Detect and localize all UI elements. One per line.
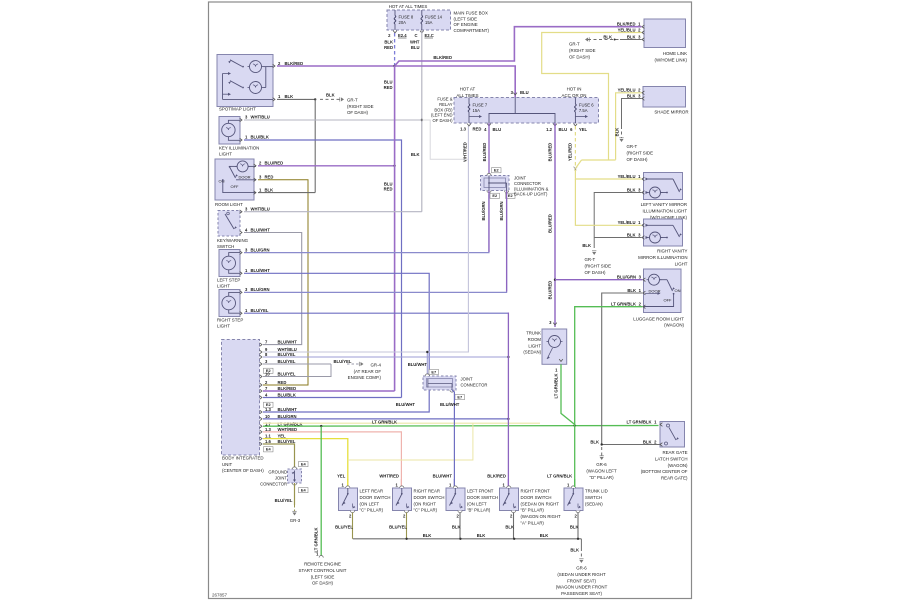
svg-text:LT GRN/BLK: LT GRN/BLK — [372, 420, 397, 425]
svg-text:(LEFT END: (LEFT END — [431, 113, 453, 118]
svg-text:BLU/YEL: BLU/YEL — [335, 525, 353, 530]
svg-text:REMOTE ENGINE: REMOTE ENGINE — [304, 562, 341, 567]
svg-text:ON: ON — [675, 288, 681, 293]
svg-text:TRUNK LID: TRUNK LID — [585, 489, 608, 494]
svg-text:BLU/WHT: BLU/WHT — [433, 474, 453, 479]
svg-text:KEY/WARNING: KEY/WARNING — [217, 238, 249, 243]
svg-text:OF DASH): OF DASH) — [627, 157, 649, 162]
svg-text:OFF: OFF — [664, 297, 673, 302]
svg-text:YEL/BLU: YEL/BLU — [618, 174, 636, 179]
svg-text:15A: 15A — [473, 108, 481, 113]
svg-text:ALL TIMES: ALL TIMES — [456, 93, 478, 98]
svg-text:ENGINE COMP.): ENGINE COMP.) — [348, 375, 382, 380]
svg-text:SHADE MIRROR: SHADE MIRROR — [654, 110, 688, 115]
svg-text:UNIT: UNIT — [222, 462, 233, 467]
svg-text:BLU/YEL: BLU/YEL — [251, 308, 269, 313]
svg-text:(WAGON UNDER FRONT: (WAGON UNDER FRONT — [556, 585, 608, 590]
svg-text:1.3: 1.3 — [460, 126, 466, 131]
svg-text:BLK: BLK — [643, 439, 652, 444]
svg-text:BLK: BLK — [423, 533, 432, 538]
svg-text:BLU/RED: BLU/RED — [548, 143, 553, 162]
svg-text:RIGHT FRONT: RIGHT FRONT — [521, 489, 551, 494]
svg-text:"D" PILLAR): "D" PILLAR) — [589, 475, 614, 480]
svg-text:LIGHT: LIGHT — [219, 152, 232, 157]
svg-text:OF ENGINE: OF ENGINE — [454, 22, 478, 27]
svg-text:OF DASH): OF DASH) — [569, 54, 591, 59]
svg-text:(SEDAN ON RIGHT: (SEDAN ON RIGHT — [521, 501, 560, 506]
svg-text:OF DASH): OF DASH) — [347, 110, 369, 115]
svg-text:ROOM LIGHT: ROOM LIGHT — [215, 202, 243, 207]
svg-text:E4: E4 — [266, 447, 272, 452]
svg-text:LEFT REAR: LEFT REAR — [360, 489, 384, 494]
svg-text:JOINT: JOINT — [461, 377, 474, 382]
svg-text:BLU: BLU — [384, 181, 393, 186]
svg-text:BLU/YEL: BLU/YEL — [278, 439, 296, 444]
svg-text:LEFT FRONT: LEFT FRONT — [467, 489, 494, 494]
svg-text:(AT REAR OF: (AT REAR OF — [354, 369, 382, 374]
svg-text:BLK: BLK — [627, 232, 636, 237]
svg-text:JOINT: JOINT — [275, 476, 288, 481]
svg-text:(ON RIGHT: (ON RIGHT — [414, 501, 437, 506]
svg-text:(SEDAN): (SEDAN) — [523, 350, 541, 355]
svg-text:LT GRN/BLK: LT GRN/BLK — [547, 474, 572, 479]
svg-text:(ON LEFT: (ON LEFT — [467, 501, 487, 506]
svg-text:BLK: BLK — [477, 533, 486, 538]
svg-text:BOX (FB): BOX (FB) — [434, 107, 453, 112]
svg-text:(LEFT SIDE: (LEFT SIDE — [311, 574, 335, 579]
svg-text:E2.4: E2.4 — [398, 33, 407, 38]
svg-text:BLK: BLK — [540, 533, 549, 538]
svg-text:BLK: BLK — [265, 187, 274, 192]
svg-text:"C" PILLAR): "C" PILLAR) — [360, 508, 384, 513]
svg-text:JOINT: JOINT — [514, 176, 527, 181]
svg-text:LIGHT: LIGHT — [528, 343, 541, 348]
svg-text:LT GRN/BLK: LT GRN/BLK — [554, 373, 559, 398]
svg-text:(WAGON ON RIGHT: (WAGON ON RIGHT — [521, 514, 562, 519]
svg-text:YEL/BLU: YEL/BLU — [618, 27, 636, 32]
svg-text:BLK: BLK — [384, 40, 393, 45]
svg-text:OF DASH): OF DASH) — [312, 581, 334, 586]
svg-text:E2: E2 — [494, 168, 500, 173]
svg-text:BLK: BLK — [582, 243, 591, 248]
svg-text:20A: 20A — [399, 20, 407, 25]
svg-text:LT GRN/BLK: LT GRN/BLK — [611, 302, 636, 307]
svg-text:"A" PILLAR): "A" PILLAR) — [521, 521, 545, 526]
svg-text:RED: RED — [384, 85, 393, 90]
svg-text:(W/HOME LINK): (W/HOME LINK) — [655, 57, 688, 62]
svg-text:FUSE 14: FUSE 14 — [425, 15, 443, 20]
svg-text:E4: E4 — [301, 488, 307, 493]
svg-text:GR-T: GR-T — [347, 97, 358, 102]
svg-text:YEL: YEL — [337, 474, 346, 479]
svg-text:WHT/RED: WHT/RED — [278, 427, 298, 432]
svg-text:ACC OR ON: ACC OR ON — [562, 93, 587, 98]
svg-text:BODY INTEGRATED: BODY INTEGRATED — [222, 456, 264, 461]
svg-text:GR-6: GR-6 — [576, 566, 587, 571]
svg-text:"C" PILLAR): "C" PILLAR) — [414, 508, 438, 513]
svg-text:(ILLUMINATION &: (ILLUMINATION & — [514, 186, 549, 191]
svg-text:BACK-UP LIGHT): BACK-UP LIGHT) — [514, 192, 548, 197]
svg-text:BLU/GRN: BLU/GRN — [251, 247, 270, 252]
svg-text:E7: E7 — [431, 369, 436, 374]
svg-text:FUSE 8: FUSE 8 — [399, 15, 414, 20]
svg-text:GR-3: GR-3 — [290, 518, 301, 523]
svg-text:E4: E4 — [301, 462, 307, 467]
svg-text:BLU/WHT: BLU/WHT — [440, 402, 460, 407]
svg-text:LIGHT: LIGHT — [217, 284, 230, 289]
svg-text:BLK: BLK — [590, 439, 599, 444]
svg-text:10: 10 — [265, 414, 270, 419]
svg-text:DOOR: DOOR — [239, 175, 251, 180]
svg-text:YEL/RED: YEL/RED — [568, 143, 573, 161]
svg-text:DOOR SWITCH: DOOR SWITCH — [360, 495, 391, 500]
svg-text:BLU: BLU — [384, 80, 393, 85]
svg-text:LEFT STEP: LEFT STEP — [217, 278, 240, 283]
svg-text:HOT AT: HOT AT — [460, 87, 476, 92]
svg-text:BLK: BLK — [570, 525, 579, 530]
svg-text:BLU/RED: BLU/RED — [548, 214, 553, 233]
svg-text:BLU/YEL: BLU/YEL — [278, 352, 296, 357]
svg-text:BLU: BLU — [520, 90, 529, 95]
svg-text:HOT IN: HOT IN — [567, 87, 582, 92]
svg-text:"B" PILLAR): "B" PILLAR) — [467, 508, 491, 513]
svg-text:COMPARTMENT): COMPARTMENT) — [454, 28, 490, 33]
svg-text:1.6: 1.6 — [265, 439, 271, 444]
svg-text:CONNECTOR: CONNECTOR — [461, 383, 488, 388]
svg-text:"B" PILLAR): "B" PILLAR) — [521, 508, 545, 513]
svg-text:BLU: BLU — [411, 45, 420, 50]
svg-text:(RIGHT SIDE: (RIGHT SIDE — [585, 263, 612, 268]
svg-text:(BOTTOM CENTER OF: (BOTTOM CENTER OF — [641, 469, 688, 474]
svg-text:LUGGAGE ROOM LIGHT: LUGGAGE ROOM LIGHT — [633, 316, 684, 321]
svg-text:OFF: OFF — [231, 184, 240, 189]
svg-text:BLU/RED: BLU/RED — [482, 143, 487, 162]
svg-text:RED: RED — [278, 380, 287, 385]
svg-text:FUSE 6: FUSE 6 — [579, 103, 594, 108]
svg-text:(SEDAN): (SEDAN) — [585, 501, 603, 506]
svg-text:BLK/RED: BLK/RED — [487, 474, 506, 479]
svg-text:KEY ILLUMINATION: KEY ILLUMINATION — [219, 146, 259, 151]
svg-text:(RIGHT SIDE: (RIGHT SIDE — [347, 104, 374, 109]
svg-text:RIGHT REAR: RIGHT REAR — [414, 489, 440, 494]
svg-text:RED: RED — [384, 45, 393, 50]
svg-text:LEFT VANITY MIRROR: LEFT VANITY MIRROR — [641, 202, 687, 207]
svg-text:BLK/RED: BLK/RED — [285, 61, 304, 66]
svg-text:BLK: BLK — [627, 34, 636, 39]
svg-text:1.3: 1.3 — [265, 407, 271, 412]
svg-text:BLU/GRN: BLU/GRN — [481, 201, 486, 220]
svg-text:BLK: BLK — [452, 525, 461, 530]
svg-text:BLU/RED: BLU/RED — [548, 281, 553, 300]
svg-text:FRONT SEAT): FRONT SEAT) — [567, 578, 596, 583]
svg-text:(RIGHT SIDE: (RIGHT SIDE — [569, 48, 596, 53]
svg-text:WHT/RED: WHT/RED — [379, 474, 399, 479]
svg-text:BLU/WHT: BLU/WHT — [278, 340, 298, 345]
svg-text:BLU/WHT: BLU/WHT — [278, 407, 298, 412]
svg-text:BLU/WHT: BLU/WHT — [408, 362, 428, 367]
svg-text:BLK: BLK — [627, 93, 636, 98]
svg-text:BLK: BLK — [570, 548, 579, 553]
svg-text:BLU/YEL: BLU/YEL — [334, 359, 352, 364]
svg-text:BLK: BLK — [411, 152, 420, 157]
svg-text:ROOM: ROOM — [528, 337, 542, 342]
svg-text:7.5A: 7.5A — [579, 108, 588, 113]
svg-text:GR-6: GR-6 — [596, 462, 607, 467]
svg-text:1.3: 1.3 — [265, 427, 271, 432]
svg-text:(ON LEFT: (ON LEFT — [360, 501, 380, 506]
svg-text:REAR GATE: REAR GATE — [662, 450, 687, 455]
svg-text:TRUNK: TRUNK — [526, 331, 541, 336]
svg-text:BLU/WHT: BLU/WHT — [251, 227, 271, 232]
svg-text:CONNECTOR: CONNECTOR — [260, 482, 287, 487]
svg-text:(RIGHT SIDE: (RIGHT SIDE — [627, 150, 654, 155]
svg-text:267857: 267857 — [212, 593, 228, 598]
svg-text:E2: E2 — [508, 193, 514, 198]
svg-text:RELAY: RELAY — [439, 102, 453, 107]
svg-text:BLU/BLK: BLU/BLK — [278, 393, 296, 398]
svg-text:ILLUMINATION LIGHT: ILLUMINATION LIGHT — [642, 208, 687, 213]
svg-text:GR-4: GR-4 — [371, 363, 382, 368]
svg-text:BLK: BLK — [505, 525, 514, 530]
svg-text:ON: ON — [219, 178, 225, 183]
svg-text:SWITCH: SWITCH — [217, 244, 234, 249]
svg-text:YEL/BLU: YEL/BLU — [618, 88, 636, 93]
svg-text:BLU/WHT: BLU/WHT — [396, 402, 416, 407]
svg-text:CONNECTOR: CONNECTOR — [514, 181, 541, 186]
svg-text:1.2: 1.2 — [546, 127, 552, 132]
svg-text:BLU/WHT: BLU/WHT — [251, 268, 271, 273]
svg-text:BLK: BLK — [627, 288, 636, 293]
svg-text:DOOR SWITCH: DOOR SWITCH — [467, 495, 498, 500]
svg-text:GR-T: GR-T — [585, 257, 596, 262]
svg-text:10: 10 — [265, 372, 270, 377]
svg-text:MIRROR ILLUMINATION: MIRROR ILLUMINATION — [638, 255, 687, 260]
svg-text:RED: RED — [473, 126, 482, 131]
svg-text:WHT/BLU: WHT/BLU — [251, 207, 270, 212]
svg-text:BLU: BLU — [493, 127, 502, 132]
svg-text:C: C — [414, 33, 417, 38]
svg-text:LT GRN/BLK: LT GRN/BLK — [626, 419, 651, 424]
svg-text:BLU/YEL: BLU/YEL — [278, 359, 296, 364]
svg-text:YEL/BLU: YEL/BLU — [618, 220, 636, 225]
svg-text:BLK: BLK — [285, 94, 294, 99]
svg-text:DOOR SWITCH: DOOR SWITCH — [414, 495, 445, 500]
svg-text:SWITCH: SWITCH — [585, 495, 602, 500]
svg-text:BLU/YEL: BLU/YEL — [389, 525, 407, 530]
svg-text:BLU: BLU — [559, 127, 568, 132]
svg-text:FUSE &: FUSE & — [437, 97, 452, 102]
svg-text:HOME LINK: HOME LINK — [663, 51, 687, 56]
svg-text:DOOR SWITCH: DOOR SWITCH — [521, 495, 552, 500]
svg-text:(SEDAN UNDER RIGHT: (SEDAN UNDER RIGHT — [557, 572, 606, 577]
svg-text:BLU/RED: BLU/RED — [265, 161, 284, 166]
svg-text:BLK: BLK — [627, 187, 636, 192]
svg-text:OF DASH): OF DASH) — [585, 270, 607, 275]
svg-text:E7: E7 — [457, 395, 462, 400]
svg-text:(WAGON): (WAGON) — [664, 323, 684, 328]
svg-text:REAR GATE): REAR GATE) — [661, 476, 688, 481]
svg-text:FUSE 7: FUSE 7 — [473, 103, 488, 108]
svg-text:15A: 15A — [425, 20, 433, 25]
svg-text:OF DASH): OF DASH) — [432, 118, 453, 123]
svg-text:GR-T: GR-T — [627, 144, 638, 149]
svg-text:WHT/BLU: WHT/BLU — [251, 115, 270, 120]
svg-text:RIGHT STEP: RIGHT STEP — [217, 318, 243, 323]
svg-text:RIGHT VANITY: RIGHT VANITY — [657, 249, 687, 254]
svg-text:(WAGON LEFT: (WAGON LEFT — [586, 468, 617, 473]
svg-text:BLU/GRN: BLU/GRN — [251, 287, 270, 292]
svg-text:BLU/GRN: BLU/GRN — [617, 275, 636, 280]
svg-text:SPOT/MAP LIGHT: SPOT/MAP LIGHT — [219, 107, 256, 112]
svg-text:LIGHT: LIGHT — [675, 261, 688, 266]
svg-text:BLU/GRN: BLU/GRN — [499, 201, 504, 220]
svg-text:BLU/YEL: BLU/YEL — [275, 498, 293, 503]
svg-text:BLK: BLK — [603, 34, 612, 39]
svg-text:(CENTER OF DASH): (CENTER OF DASH) — [222, 468, 264, 473]
svg-text:BLK/RED: BLK/RED — [433, 55, 452, 60]
svg-text:LATCH SWITCH: LATCH SWITCH — [655, 456, 688, 461]
svg-text:PASSENGER SEAT): PASSENGER SEAT) — [561, 591, 602, 596]
svg-text:BLK: BLK — [326, 93, 335, 98]
svg-text:LT GRN/BLK: LT GRN/BLK — [314, 527, 319, 552]
svg-text:BLK: BLK — [614, 128, 619, 137]
svg-text:YEL: YEL — [579, 127, 588, 132]
svg-text:E2.C: E2.C — [425, 33, 434, 38]
svg-text:E2: E2 — [492, 193, 498, 198]
svg-text:MAIN FUSE BOX: MAIN FUSE BOX — [454, 11, 488, 16]
svg-text:BLU/YEL: BLU/YEL — [278, 372, 296, 377]
svg-text:(LEFT SIDE: (LEFT SIDE — [454, 16, 478, 21]
svg-text:HOT AT ALL TIMES: HOT AT ALL TIMES — [389, 4, 428, 9]
svg-text:BLU/GRN: BLU/GRN — [278, 414, 297, 419]
svg-text:BLK/RED: BLK/RED — [617, 22, 636, 27]
svg-text:(WAGON): (WAGON) — [668, 463, 688, 468]
svg-text:WHT: WHT — [410, 40, 420, 45]
svg-text:GROUND: GROUND — [268, 470, 287, 475]
svg-text:RED: RED — [384, 187, 393, 192]
svg-text:LIGHT: LIGHT — [217, 324, 230, 329]
svg-text:BLU/BLK: BLU/BLK — [251, 135, 269, 140]
svg-text:START CONTROL UNIT: START CONTROL UNIT — [299, 568, 347, 573]
svg-text:RED: RED — [265, 175, 274, 180]
svg-text:GR-T: GR-T — [569, 42, 580, 47]
